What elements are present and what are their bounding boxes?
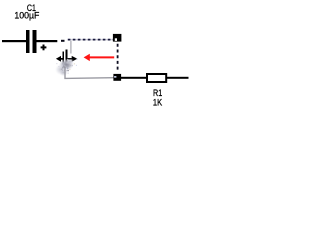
node N2: [113, 74, 121, 81]
wire (C1 left lead): [2, 40, 26, 42]
wire (R1 to edge): [167, 77, 189, 79]
drag arrow (red): [84, 54, 115, 61]
wire (ghost upper): [70, 41, 72, 54]
cursor (stretch-wire): [56, 56, 77, 62]
wire (C1 right lead): [36, 40, 57, 42]
node N1: [113, 34, 122, 42]
svg-text:100µF: 100µF: [14, 11, 39, 21]
wire (stretched, dashed): [68, 39, 113, 41]
polarity +: [41, 45, 47, 51]
wire (stretched, grey underline): [68, 39, 113, 41]
wire (stretched, black dash stub): [61, 40, 65, 42]
wire (ghost lower L): [65, 67, 114, 78]
resistor R1: [147, 74, 166, 82]
wire (node to R1): [121, 77, 146, 79]
wire (dashed vertical): [117, 44, 119, 72]
svg-text:1K: 1K: [153, 98, 163, 108]
capacitor C1: [26, 30, 37, 53]
svg-text:R1: R1: [153, 88, 162, 98]
